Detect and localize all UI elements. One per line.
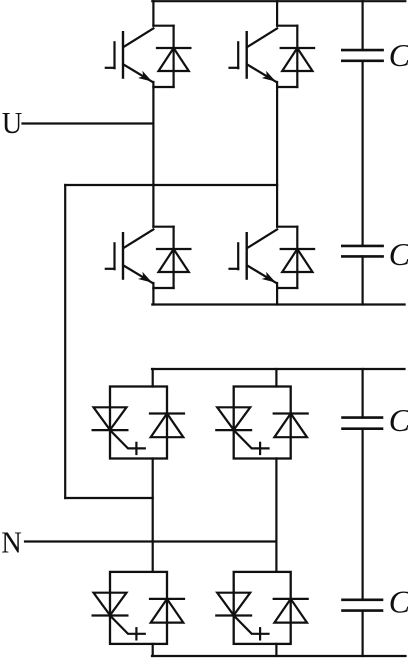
wire: N node to module VT4 [275,542,277,572]
svg-text:C: C [389,583,408,619]
wire: top rail to IGBT V1 collector [152,1,154,26]
top rail of lower cell [152,368,405,370]
svg-text:N: N [1,525,22,559]
wire: N node to module VT3 [152,542,154,572]
wire: U terminal lead [23,122,154,124]
svg-text:C: C [389,37,408,73]
thyristor module VT2 [216,387,307,459]
thyristor module VT4 [216,572,307,644]
wire: lower rail to capacitor C3 [362,369,364,418]
IGBT V3 with freewheel diode VD3 [106,227,191,288]
wire: capacitor C1 to capacitor C2 [362,61,364,246]
wire: capacitor C4 to bottom rail [362,611,364,656]
wire: capacitor C2 to bottom rail [362,256,364,304]
wire: midpoint link from column B to bypass [65,184,277,186]
svg-text:C: C [389,402,408,438]
wire: top rail to IGBT V2 collector [276,1,278,26]
wire: phase leg column B (V2 emitter to V4 collector) [276,82,278,227]
thyristor module VT1 [93,387,184,459]
wire: bypass column down left side [64,185,66,498]
bottom rail of lower cell [152,655,406,657]
capacitor C2 [342,246,382,257]
svg-text:C: C [389,236,408,272]
wire: V3 emitter to bottom rail [152,283,154,305]
wire: lower rail to module VT1 [152,369,154,387]
wire: phase leg column A (V1 emitter to V3 collector) [152,82,154,227]
wire: lower rail to module VT2 [275,369,277,387]
capacitor C4 [343,600,383,611]
wire: bypass bottom link [65,497,153,499]
wire: capacitor C3 to capacitor C4 [362,429,364,600]
thyristor module VT3 [93,572,184,644]
wire: V4 emitter to bottom rail [276,283,278,305]
wire: VT4 to bottom rail [275,644,277,656]
IGBT V4 with freewheel diode VD4 [230,227,315,288]
wire: VT3 to bottom rail [152,644,154,656]
IGBT V1 with freewheel diode VD1 [106,26,191,87]
capacitor C3 [343,418,383,429]
wire: N terminal lead [25,540,276,542]
bottom rail of upper cell [152,303,404,305]
svg-text:U: U [2,106,23,140]
capacitor C1 [342,50,382,61]
top DC rail [152,0,405,2]
wire: VT2 cathode to N node [275,459,277,542]
wire: top rail to capacitor C1 [362,1,364,50]
IGBT V2 with freewheel diode VD2 [230,26,315,87]
wire: VT1 cathode to N node [152,459,154,542]
